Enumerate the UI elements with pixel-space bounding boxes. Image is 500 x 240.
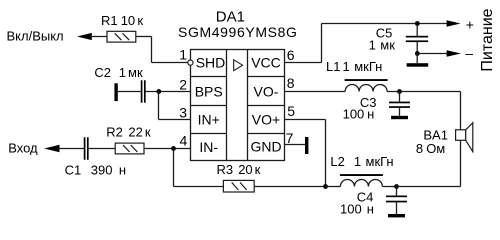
svg-text:+: + <box>466 17 474 33</box>
wire C3 to ground <box>399 108 401 116</box>
svg-text:100: 100 <box>340 202 362 217</box>
wire to pin 3 <box>159 119 191 121</box>
wire L2 to node D <box>382 186 396 188</box>
capacitor C3 <box>389 102 410 108</box>
wire speaker bottom <box>460 140 462 186</box>
svg-text:8: 8 <box>287 75 295 91</box>
svg-text:10: 10 <box>121 13 135 28</box>
capacitor C2 <box>141 80 146 103</box>
svg-text:к: к <box>137 13 143 28</box>
node junction minus rail <box>415 51 420 56</box>
wire R3 to node C <box>254 186 325 188</box>
svg-text:Ом: Ом <box>426 141 445 156</box>
svg-text:Питание: Питание <box>479 8 496 71</box>
svg-text:IN+: IN+ <box>198 112 220 128</box>
wire C5 top stem <box>416 24 418 37</box>
wire Вход to C1 <box>59 148 84 150</box>
wire to R3 <box>174 186 224 188</box>
node junction R3/L2 <box>323 184 328 189</box>
svg-text:1: 1 <box>343 59 350 74</box>
node junction top rail / C5 <box>415 21 420 26</box>
svg-text:390: 390 <box>91 162 113 177</box>
wire junction down to R3 <box>173 149 175 187</box>
pin 1 inversion circle <box>188 60 193 65</box>
ground (C5) <box>407 63 429 66</box>
wire junction down <box>158 92 160 120</box>
wire pin 5 right <box>285 119 326 121</box>
svg-text:VO-: VO- <box>254 83 279 99</box>
svg-text:мк: мк <box>380 38 395 53</box>
wire speaker top <box>460 92 462 130</box>
wire arrow minus <box>447 50 461 57</box>
svg-text:4: 4 <box>180 132 188 148</box>
node junction L1/C3 <box>397 89 402 94</box>
svg-text:н: н <box>119 162 126 177</box>
node junction IN-/R3 <box>171 146 176 151</box>
svg-text:22: 22 <box>128 125 142 140</box>
wire pin 7 to ground <box>285 144 306 146</box>
svg-text:к: к <box>255 162 261 177</box>
loudspeaker BA1 <box>456 123 473 152</box>
svg-text:н: н <box>367 107 374 122</box>
svg-text:1: 1 <box>119 65 126 80</box>
wire C4 to ground <box>396 202 398 214</box>
wire R1 right <box>136 36 152 38</box>
op-amp U1 DA1 body <box>191 50 285 161</box>
svg-text:1: 1 <box>354 154 361 169</box>
wire R1 down to pin 1 <box>151 37 153 63</box>
wire arrow plus <box>447 20 461 27</box>
svg-text:5: 5 <box>287 103 295 119</box>
wire C4 stem <box>396 187 398 197</box>
wire to L2 <box>326 186 341 188</box>
resistor R3 <box>223 180 254 192</box>
op-amp triangle symbol <box>234 60 243 71</box>
wire R2 to pin 4 <box>144 148 190 150</box>
wire pin 8 to L1 <box>285 91 346 93</box>
inductor L1 <box>345 79 388 91</box>
ground (C3) <box>391 116 408 119</box>
ground (C4) <box>388 214 405 217</box>
svg-text:мк: мк <box>128 65 143 80</box>
wire L1 to speaker <box>387 91 460 93</box>
ground (pin 7) <box>305 137 308 154</box>
svg-text:R3: R3 <box>217 162 234 177</box>
wire bottom rail to speaker <box>397 186 461 188</box>
node junction C2/BPS/IN+ <box>156 89 161 94</box>
wire to pin 1 <box>152 62 188 64</box>
svg-text:100: 100 <box>343 107 365 122</box>
svg-text:VO+: VO+ <box>252 112 280 128</box>
svg-text:1: 1 <box>369 38 376 53</box>
wire C2 to pin 2 <box>146 91 190 93</box>
capacitor C1 <box>84 137 89 160</box>
svg-text:BPS: BPS <box>195 83 223 99</box>
svg-text:6: 6 <box>287 47 295 63</box>
svg-text:7: 7 <box>286 130 294 146</box>
svg-text:C2: C2 <box>94 65 111 80</box>
svg-text:н: н <box>367 202 374 217</box>
wire top rail <box>322 23 449 25</box>
svg-text:L2: L2 <box>330 154 344 169</box>
svg-text:IN-: IN- <box>199 139 218 155</box>
svg-text:R2: R2 <box>106 125 123 140</box>
wire C1 to R2 <box>89 148 116 150</box>
wire pin 6 right <box>285 62 322 64</box>
svg-text:SHD: SHD <box>196 54 226 70</box>
inductor L2 <box>340 174 383 186</box>
node junction L2/C4 <box>394 184 399 189</box>
wire minus rail <box>418 53 449 55</box>
wire C5 to ground <box>416 54 418 64</box>
svg-text:SGM4996YMS8G: SGM4996YMS8G <box>178 24 298 40</box>
svg-text:3: 3 <box>179 104 187 120</box>
wire arrow to Вход <box>44 145 59 153</box>
svg-text:–: – <box>465 45 473 61</box>
resistor R1 <box>107 31 136 42</box>
wire ground to C2 <box>118 91 141 93</box>
svg-text:Вход: Вход <box>8 140 38 155</box>
svg-text:8: 8 <box>416 141 423 156</box>
svg-text:20: 20 <box>238 162 252 177</box>
resistor R2 <box>115 143 144 154</box>
wire pin 6 up <box>321 24 323 63</box>
wire pin 5 down <box>325 120 327 187</box>
svg-text:VCC: VCC <box>251 54 281 70</box>
svg-text:GND: GND <box>250 139 281 155</box>
wire C3 stem <box>399 92 401 103</box>
wire arrow to Вкл/Выкл <box>77 33 92 40</box>
ground (C2) <box>114 83 117 101</box>
capacitor C5 <box>406 36 428 42</box>
svg-text:Вкл/Выкл: Вкл/Выкл <box>7 28 64 43</box>
svg-text:мкГн: мкГн <box>366 154 394 169</box>
svg-text:мкГн: мкГн <box>354 59 382 74</box>
svg-text:к: к <box>145 125 151 140</box>
svg-text:2: 2 <box>179 76 187 92</box>
svg-text:C1: C1 <box>65 162 82 177</box>
capacitor C4 <box>386 196 407 203</box>
wire R1 left <box>91 36 108 38</box>
wire C5 bottom stem <box>416 42 418 54</box>
svg-text:R1: R1 <box>101 13 118 28</box>
svg-text:1: 1 <box>179 46 187 62</box>
svg-text:L1: L1 <box>326 59 340 74</box>
